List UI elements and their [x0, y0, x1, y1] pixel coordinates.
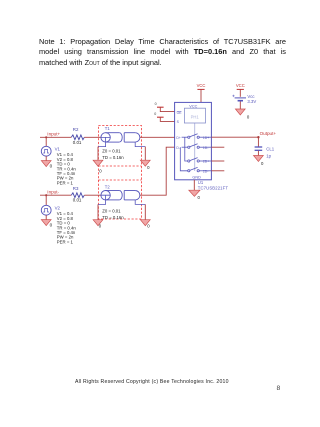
net label Input- — [47, 190, 59, 195]
svg-text:S: S — [177, 120, 180, 124]
svg-text:0: 0 — [261, 161, 264, 166]
svg-text:2D+: 2D+ — [203, 160, 209, 164]
svg-text:TD = 0.16n: TD = 0.16n — [102, 215, 124, 220]
resistor R2 — [71, 127, 84, 145]
svg-text:PER = 1: PER = 1 — [57, 180, 74, 185]
ground 0 below Vcc source — [235, 109, 250, 119]
svg-text:0: 0 — [247, 114, 250, 119]
logic low tie at S — [154, 112, 163, 117]
svg-text:Input+: Input+ — [47, 132, 60, 137]
svg-text:V1: V1 — [55, 147, 61, 152]
ground 0 at T2 pin2 — [93, 220, 103, 229]
wire stub 2D+ — [211, 160, 224, 162]
wire Input+ to R2 — [40, 136, 71, 138]
svg-text:D+: D+ — [176, 136, 180, 140]
svg-text:R3: R3 — [73, 186, 79, 191]
T1 model parameters Z0 TD — [102, 149, 124, 161]
svg-text:TC7USB221FT: TC7USB221FT — [198, 186, 229, 191]
wire VCC to U1 — [200, 89, 202, 102]
switch row 2 D- to 1D- — [176, 144, 211, 150]
svg-text:0: 0 — [147, 224, 150, 229]
wire Input- to R3 — [40, 194, 71, 196]
ground 0 below V2 — [41, 220, 52, 228]
switch row 1 D+ to 1D+ — [176, 134, 211, 140]
wire Vcc source to ground — [239, 102, 241, 110]
wire V1 to ground — [45, 156, 47, 161]
ground 0 at T1 pin2 — [93, 160, 103, 173]
switch row 3 to 2D+ — [188, 158, 212, 164]
transmission line T1 — [98, 126, 145, 147]
wire VCC to Vcc source — [239, 89, 241, 96]
svg-text:0: 0 — [99, 224, 102, 229]
wire R3 to T2 — [84, 194, 101, 196]
svg-text:VCC: VCC — [236, 83, 245, 88]
wire V2 to ground — [45, 215, 47, 220]
svg-text:3.3V: 3.3V — [247, 99, 256, 104]
V2 parameter values — [57, 211, 77, 244]
transmission line T2 — [98, 184, 145, 204]
U1 internal bus D+ to row3 — [185, 137, 188, 161]
svg-text:D-: D- — [176, 146, 180, 150]
U1 internal bus D- to row4 — [180, 147, 187, 171]
U1 pin label S — [177, 120, 180, 124]
wire V2 to Input- net — [45, 195, 47, 205]
U1 VCC pin label — [189, 104, 197, 108]
svg-text:OE: OE — [177, 111, 183, 115]
pulse source V2 — [41, 205, 60, 215]
svg-text:T1: T1 — [105, 126, 111, 131]
wire V1 to Input+ net — [45, 137, 47, 146]
ground 0 below V1 — [41, 161, 52, 169]
switch row 4 to 2D- — [188, 167, 212, 173]
U1 reference designator — [198, 180, 229, 191]
T2 model parameters Z0 TD — [102, 209, 124, 221]
U1 control line from PH1 — [194, 123, 196, 171]
svg-text:R2: R2 — [73, 127, 79, 132]
svg-text:T2: T2 — [105, 184, 111, 189]
svg-text:VCC: VCC — [197, 83, 206, 88]
svg-text:0: 0 — [155, 102, 157, 106]
ground 0 at T1 pin4 — [140, 160, 150, 170]
ground 0 at T2 pin4 — [140, 220, 150, 229]
wire T1 to U1 D+ — [140, 136, 175, 138]
svg-text:Z0 = 0.01: Z0 = 0.01 — [102, 209, 121, 214]
svg-text:U1: U1 — [198, 180, 204, 185]
svg-text:TD = 0.16n: TD = 0.16n — [102, 155, 124, 160]
svg-text:0.01: 0.01 — [73, 140, 82, 145]
svg-text:1D+: 1D+ — [203, 136, 209, 140]
wire CL1 to ground — [257, 151, 259, 156]
wire U1 GND to ground — [193, 180, 195, 190]
wire T2 to U1 D- riser — [140, 147, 175, 195]
svg-text:2D-: 2D- — [203, 169, 208, 173]
svg-text:0.01: 0.01 — [73, 198, 82, 203]
junction dot at V1 tap — [45, 136, 47, 138]
wire T1 pin2 to ground — [97, 147, 99, 161]
svg-text:0: 0 — [50, 223, 53, 228]
U1 GND pin label — [192, 175, 201, 179]
svg-text:0: 0 — [154, 112, 156, 116]
VCC symbol above Vcc source — [236, 83, 245, 89]
wire T1 pin4 to ground — [144, 147, 146, 161]
ground 0 below U1 — [189, 190, 201, 200]
pulse source V1 — [41, 146, 60, 156]
svg-text:Z0 = 0.01: Z0 = 0.01 — [102, 149, 121, 154]
svg-text:Input-: Input- — [47, 190, 59, 195]
resistor R3 — [71, 186, 84, 203]
IC U1 TC7USB31 body — [175, 102, 212, 179]
svg-text:CL1: CL1 — [266, 147, 274, 152]
svg-text:1p: 1p — [266, 154, 271, 159]
logic low tie at /OE — [155, 102, 164, 107]
wire stub 1D- — [211, 146, 224, 148]
VCC symbol above U1 — [197, 83, 206, 89]
wire tie to U1 /OE — [160, 107, 174, 111]
DC source Vcc 3.3V — [232, 94, 256, 104]
junction dot Output+ — [257, 136, 259, 138]
net label Input+ — [47, 132, 60, 137]
svg-text:PH1: PH1 — [191, 115, 200, 120]
svg-text:Output+: Output+ — [260, 131, 277, 136]
svg-text:0: 0 — [198, 195, 201, 200]
capacitor CL1 — [255, 147, 275, 159]
wire U1 1D+ to Output+ — [211, 136, 258, 138]
wire stub 2D- — [211, 170, 224, 172]
svg-text:0: 0 — [147, 165, 150, 170]
wire tie to U1 S — [160, 117, 174, 121]
junction dot at V2 tap — [45, 194, 47, 196]
wire T2 pin2 to ground — [97, 204, 99, 219]
ground 0 below CL1 — [254, 156, 265, 167]
svg-text:PER = 1: PER = 1 — [57, 239, 74, 244]
svg-text:GND: GND — [192, 175, 201, 179]
net label Output+ — [260, 131, 277, 136]
U1 control block PH1 — [184, 108, 205, 123]
svg-text:V2: V2 — [55, 206, 61, 211]
wire R2 to T1 — [84, 136, 101, 138]
svg-text:0: 0 — [50, 164, 53, 169]
wire Output+ to CL1 — [257, 137, 259, 146]
wire T2 pin4 to ground — [144, 204, 146, 219]
V1 parameter values — [57, 152, 77, 185]
dashed model box around T1 and T2 — [98, 126, 141, 220]
svg-text:1D-: 1D- — [203, 146, 208, 150]
svg-text:0: 0 — [99, 169, 102, 174]
U1 pin label OE — [177, 111, 183, 115]
